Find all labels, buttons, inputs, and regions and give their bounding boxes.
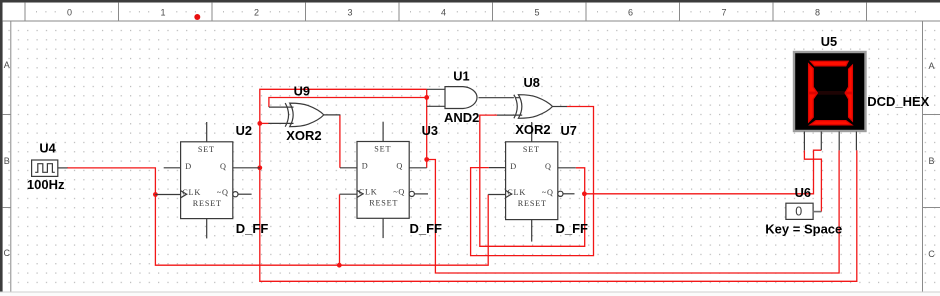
wire: U5 pin1 to switch U6 (804, 150, 821, 211)
svg-text:B: B (4, 156, 10, 166)
wire: U9 output down to U3.D (339, 115, 341, 168)
junction: U7.Q branch to display pin2 (582, 191, 587, 196)
svg-text:6: 6 (628, 8, 633, 18)
segment b (846, 65, 853, 92)
top ruler tick dots (36, 11, 916, 13)
svg-text:D: D (185, 162, 192, 171)
U7 ~Q pin (dangling) (563, 193, 575, 195)
U9 input A stub (269, 106, 294, 108)
svg-text:D_FF: D_FF (236, 221, 269, 236)
svg-text:7: 7 (721, 8, 726, 18)
U7 Q pin (558, 167, 576, 169)
svg-text:B: B (928, 156, 934, 166)
flip-flop U3 body (357, 142, 414, 219)
U9 output stub (324, 114, 341, 116)
U3 D pin (340, 167, 357, 169)
flip-flop U2 body (181, 142, 238, 219)
U2 D pin (dangling) (164, 167, 181, 169)
right ruler letters (928, 61, 935, 259)
svg-text:8: 8 (815, 8, 820, 18)
svg-text:A: A (4, 60, 10, 70)
left ruler letters (4, 60, 11, 258)
switch U6 body (786, 203, 813, 219)
wire: U7.Q to U8.inB loop (480, 115, 585, 246)
U7 RESET pin (531, 220, 533, 242)
junction: U1/U9 feed at (426.7,97.9) (424, 95, 429, 100)
wire: U8 output loop to U7.D (471, 107, 594, 256)
svg-text:RESET: RESET (518, 199, 547, 208)
junction: U3.Q jog at (426.7,159.5) (424, 157, 429, 162)
U1 output stub joining U8 input A (479, 97, 520, 99)
junction: U2.CLK tap (153, 192, 158, 197)
svg-text:U1: U1 (453, 68, 469, 83)
wire: U7.Q branch to U5 pin2 (585, 150, 822, 194)
clock source U4 body (32, 160, 58, 176)
svg-text:Q: Q (545, 162, 552, 171)
svg-text:U2: U2 (236, 123, 252, 138)
U3 ~Q pin (dangling) (414, 193, 428, 195)
svg-text:2: 2 (254, 8, 259, 18)
U5 pin 3 (838, 132, 840, 151)
svg-text:DCD_HEX: DCD_HEX (867, 94, 929, 109)
svg-text:U6: U6 (795, 185, 811, 200)
right ruler strip (923, 21, 940, 292)
U7 SET pin (531, 122, 533, 142)
svg-text:SET: SET (374, 145, 391, 154)
svg-text:C: C (928, 249, 935, 259)
top ruler cell dividers (25, 3, 867, 21)
svg-text:D: D (362, 162, 369, 171)
svg-text:U8: U8 (524, 75, 540, 90)
left ruler strip (3, 21, 11, 292)
U9 input B stub (268, 122, 293, 124)
U8 input B stub (497, 114, 522, 116)
segment g unlit (813, 91, 850, 95)
U1 input A stub (427, 88, 445, 90)
U1 input B stub (427, 105, 445, 107)
outer frame dark border left (0, 0, 3, 292)
segment a (811, 61, 849, 66)
svg-text:Key = Space: Key = Space (765, 221, 842, 236)
wire: U9.inA feed line (269, 98, 427, 108)
display U5 body (794, 52, 866, 131)
U7 D pin (489, 167, 506, 169)
svg-text:U3: U3 (422, 123, 438, 138)
segment f (809, 64, 817, 92)
flip-flop U7 body (506, 142, 563, 220)
svg-text:A: A (928, 61, 934, 71)
junction: clock bus at U3.CLK column (337, 263, 342, 268)
U3 SET pin (382, 122, 384, 142)
svg-text:U4: U4 (39, 140, 56, 155)
U5 pin 1 (803, 132, 805, 151)
U4 output stub (58, 167, 68, 169)
svg-text:AND2: AND2 (444, 110, 479, 125)
svg-text:D: D (510, 162, 517, 171)
U2 CLK pin (155, 194, 180, 196)
xor gate U8 body (514, 95, 553, 119)
junction: U9.inB tap on U2.Q trunk (257, 121, 262, 126)
U2 Q pin (233, 167, 260, 169)
svg-text:0: 0 (67, 8, 72, 18)
svg-text:XOR2: XOR2 (515, 122, 550, 137)
svg-text:SET: SET (198, 145, 215, 154)
wire: U4 output to U2.CLK and clock bus (net CLK) (67, 168, 488, 265)
wire: U9.inB tap segment (260, 122, 269, 124)
segment d (810, 121, 852, 125)
red marker dot on ruler (194, 14, 200, 20)
U3 RESET pin (382, 218, 384, 238)
off-sheet strip at bottom (0, 292, 940, 296)
wire: jog from U3.Q junction down to bottom and right to U5 pin3 (427, 150, 839, 273)
outer frame dark border top (0, 0, 940, 3)
svg-text:4: 4 (441, 8, 446, 18)
U2 SET pin (206, 122, 208, 142)
svg-text:Q: Q (396, 162, 403, 171)
svg-text:~Q: ~Q (217, 188, 229, 197)
U6 right terminal stub (812, 211, 821, 213)
svg-text:3: 3 (347, 8, 352, 18)
wire: U2.Q vertical trunk up to U1.inA feed line and down to bottom bus (260, 89, 857, 281)
svg-text:C: C (4, 248, 11, 258)
U3 Q pin (409, 167, 427, 169)
U8 output stub (553, 106, 567, 108)
svg-text:U9: U9 (294, 83, 310, 98)
U2 ~Q pin (dangling) (238, 193, 252, 195)
segment c (846, 94, 853, 121)
wire: U3.CLK drop to clock bus (339, 195, 341, 266)
top ruler numbers 0-8 (67, 8, 820, 18)
svg-text:100Hz: 100Hz (27, 177, 65, 192)
svg-text:~Q: ~Q (542, 188, 554, 197)
svg-text:U5: U5 (821, 34, 837, 49)
U5 pin 2 (820, 132, 822, 151)
svg-text:XOR2: XOR2 (286, 128, 321, 143)
and gate U1 body (445, 87, 477, 109)
U7 CLK pin (488, 194, 505, 196)
svg-text:Q: Q (220, 162, 227, 171)
U2 RESET pin (206, 219, 208, 239)
xor gate U9 body (285, 103, 324, 127)
U3 CLK pin (340, 193, 358, 195)
svg-text:SET: SET (523, 145, 540, 154)
svg-text:D_FF: D_FF (556, 221, 589, 236)
svg-text:~Q: ~Q (393, 188, 405, 197)
segment e (809, 94, 817, 122)
junction: U2.Q pin on trunk (257, 165, 262, 170)
svg-text:RESET: RESET (369, 199, 398, 208)
svg-text:5: 5 (534, 8, 539, 18)
top ruler strip (3, 3, 940, 21)
U5 pin 4 (855, 132, 857, 151)
svg-text:RESET: RESET (193, 199, 222, 208)
svg-text:1: 1 (160, 8, 165, 18)
svg-text:D_FF: D_FF (410, 221, 443, 236)
svg-text:0: 0 (795, 204, 802, 218)
wire: vertical at x=426.7 linking inA line down to U3.Q (426, 89, 428, 168)
svg-text:U7: U7 (561, 123, 577, 138)
